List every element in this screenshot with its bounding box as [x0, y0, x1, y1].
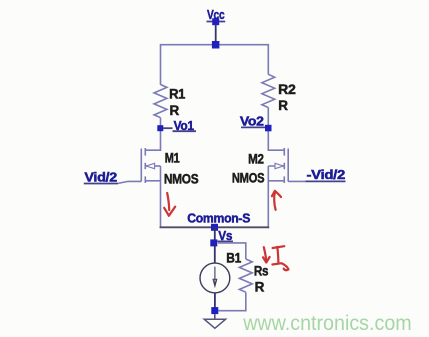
transistor M1 (NMOS) [141, 148, 160, 183]
wire Rs to bottom node [218, 292, 246, 311]
svg-text:M2: M2 [248, 152, 264, 167]
wire Vcc stem [215, 24, 217, 45]
junction common rail [211, 224, 218, 231]
wire R2 to M2 drain [268, 108, 284, 151]
node Vcc port square [212, 18, 219, 25]
node label -Vid/2 [306, 167, 346, 182]
annotation red arrow down (drain current M1) [164, 193, 175, 216]
wire M1 source to common rail [160, 166, 162, 227]
svg-text:B1: B1 [226, 251, 241, 266]
svg-text:R: R [255, 280, 265, 295]
wire Vs to Rs branch [218, 243, 246, 259]
svg-text:Common-S: Common-S [187, 210, 250, 225]
svg-text:Rs: Rs [254, 263, 268, 278]
transistor M2 (NMOS, mirrored) [268, 148, 288, 183]
node Vo1 [157, 118, 196, 133]
svg-text:M1: M1 [165, 150, 180, 165]
svg-text:Vo2: Vo2 [240, 114, 264, 129]
wire M2 gate lead [288, 180, 305, 182]
wire common source rail [161, 226, 269, 229]
wire M1 gate lead [118, 181, 141, 183]
power label Vcc [207, 7, 226, 22]
svg-text:www.cntronics.com: www.cntronics.com [242, 311, 411, 335]
svg-text:Vid/2: Vid/2 [84, 169, 117, 184]
svg-text:NMOS: NMOS [164, 172, 199, 187]
svg-text:R: R [278, 98, 288, 113]
svg-text:-Vid/2: -Vid/2 [307, 167, 346, 182]
node Vs [210, 228, 233, 247]
svg-text:NMOS: NMOS [232, 170, 265, 185]
junction top rail [212, 41, 220, 49]
wire Vs to B1 [214, 246, 216, 263]
annotation red Is current marker [263, 246, 289, 270]
junction bottom node [211, 307, 218, 314]
resistor R2 [262, 74, 275, 107]
wire top rail [161, 45, 269, 85]
ground [204, 314, 225, 328]
resistor R1 [154, 85, 167, 118]
svg-text:R: R [170, 103, 180, 118]
wire R1 to M1 drain [145, 118, 160, 151]
node Vo2 [240, 114, 272, 132]
svg-text:R1: R1 [169, 87, 186, 102]
wire M2 source to common rail [267, 166, 269, 227]
wire B1 to bottom node [214, 293, 216, 311]
annotation red arrow up (drain current M2) [272, 191, 281, 210]
current source B1 [200, 263, 230, 293]
node label Vid/2 [84, 169, 118, 184]
wire rail to Vs node [214, 227, 216, 243]
resistor Rs [239, 259, 252, 292]
svg-text:R2: R2 [278, 82, 295, 97]
